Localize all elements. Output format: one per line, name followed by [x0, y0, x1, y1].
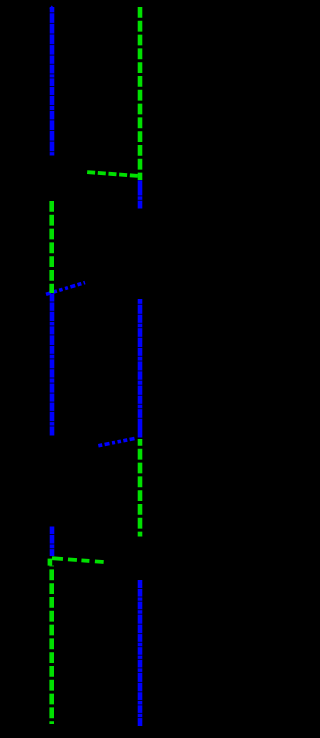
wire blue left segment middle: [50, 294, 55, 436]
wire blue diagonal connector lower: [97, 439, 135, 447]
wire green horizontal connector lower: [52, 558, 107, 562]
wire green horizontal connector upper: [86, 172, 138, 176]
wire green left segment upper-middle: [49, 201, 54, 293]
wire blue diagonal connector upper-middle: [46, 283, 85, 295]
wire blue left segment lower: [50, 527, 55, 557]
wire green right segment top: [138, 7, 143, 180]
wire green right segment lower-middle: [138, 439, 143, 537]
wire blue right segment middle: [138, 299, 143, 438]
wire blue left segment top: [49, 5, 54, 155]
wire green left segment bottom: [50, 559, 52, 724]
wire blue right segment upper: [138, 180, 143, 208]
wire blue right segment bottom: [138, 580, 143, 726]
